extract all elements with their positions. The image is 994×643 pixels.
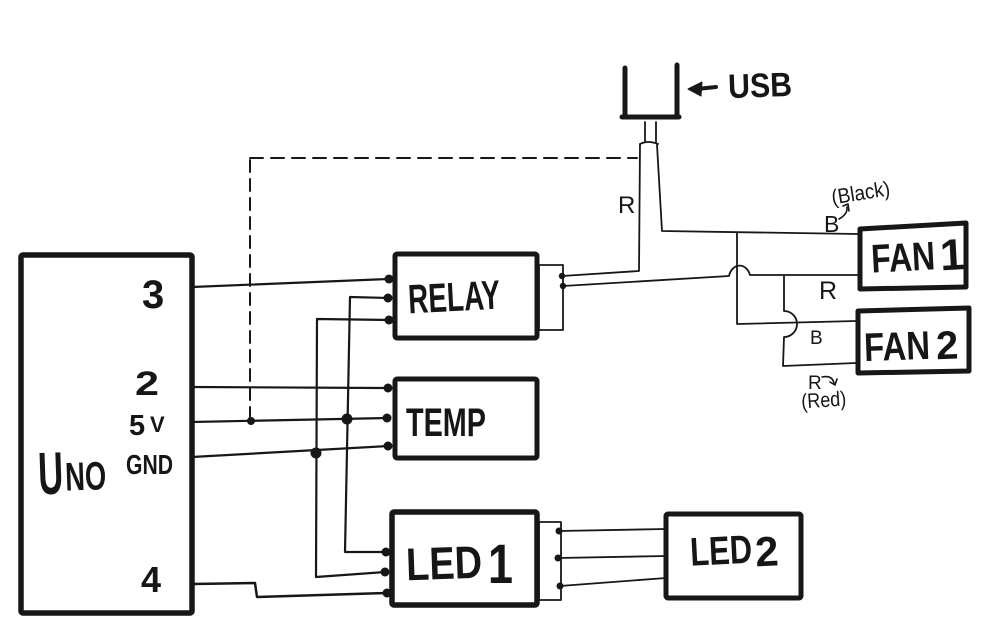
svg-text:FAN: FAN (863, 324, 930, 370)
svg-text:U: U (37, 440, 64, 508)
USB cable right wire B to FAN1 (657, 145, 858, 234)
svg-text:3: 3 (142, 273, 164, 317)
LED 1 box (392, 512, 537, 605)
dashed vertical net to 5V (249, 160, 251, 418)
relay connector pin dots (559, 273, 566, 289)
FAN 1 box (860, 223, 966, 289)
relay pin dots (384, 275, 394, 325)
arrow B to Black (839, 207, 847, 219)
svg-text:(Black): (Black) (830, 177, 892, 209)
LED 1 output connector (539, 522, 561, 600)
svg-text:GND: GND (126, 449, 173, 480)
svg-text:4: 4 (141, 559, 161, 600)
junction dot dashed-5V (247, 417, 255, 425)
svg-text:2: 2 (135, 365, 159, 403)
junction dot 5V riser (342, 414, 353, 425)
LED1 connector pin dots (555, 528, 564, 590)
GND riser wire relay-temp-LED1 (316, 319, 389, 577)
svg-text:5: 5 (129, 410, 145, 442)
wire UNO 5V to temp (192, 418, 387, 422)
relay module box (395, 254, 537, 338)
svg-text:RELAY: RELAY (407, 272, 501, 323)
Arduino UNO board box (21, 255, 192, 613)
svg-text:NO: NO (64, 454, 107, 499)
junction dot GND riser (311, 448, 322, 459)
LED1 to LED2 wire 3 (560, 578, 666, 586)
svg-text:(Red): (Red) (800, 387, 846, 413)
USB plug connector (622, 65, 679, 117)
dashed horizontal net (250, 157, 637, 159)
wire UNO pin4 to LED1 (193, 583, 388, 597)
wire UNO GND to temp (192, 446, 388, 457)
svg-text:USB: USB (727, 66, 792, 106)
svg-text:R: R (618, 192, 635, 219)
svg-text:V: V (150, 412, 165, 437)
LED1 pin dots (381, 548, 392, 598)
wire UNO pin3 to relay (192, 279, 389, 287)
LED 2 box (666, 514, 801, 598)
svg-text:2: 2 (935, 324, 959, 369)
relay output connector (539, 265, 563, 330)
temp pin dots (383, 384, 393, 451)
svg-text:FAN: FAN (870, 234, 936, 281)
svg-text:TEMP: TEMP (406, 401, 486, 445)
svg-text:B: B (824, 211, 839, 237)
wire Red drop to FAN2 bottom with hop (783, 276, 856, 366)
USB cable neck (640, 122, 658, 144)
svg-text:LED: LED (405, 536, 483, 591)
LED1 to LED2 wire 2 (558, 556, 666, 558)
svg-text:R: R (819, 277, 837, 305)
arrow R to Red (822, 377, 834, 383)
wire UNO pin2 to temp (192, 387, 388, 388)
FAN 2 box (858, 308, 969, 373)
USB cable left wire to relay connector (562, 144, 640, 276)
wire B drop to FAN2 top (737, 233, 856, 324)
svg-text:1: 1 (488, 532, 513, 595)
LED1 to LED2 wire 1 (559, 529, 666, 531)
5V riser wire relay-temp-LED1 (345, 297, 389, 552)
wire R relay connector to FAN1 with hop (563, 266, 858, 286)
temp sensor box (395, 379, 537, 458)
svg-text:2: 2 (754, 527, 780, 575)
USB arrow (697, 87, 716, 89)
svg-text:B: B (810, 328, 823, 349)
svg-text:LED: LED (689, 528, 753, 575)
svg-text:1: 1 (939, 230, 966, 280)
